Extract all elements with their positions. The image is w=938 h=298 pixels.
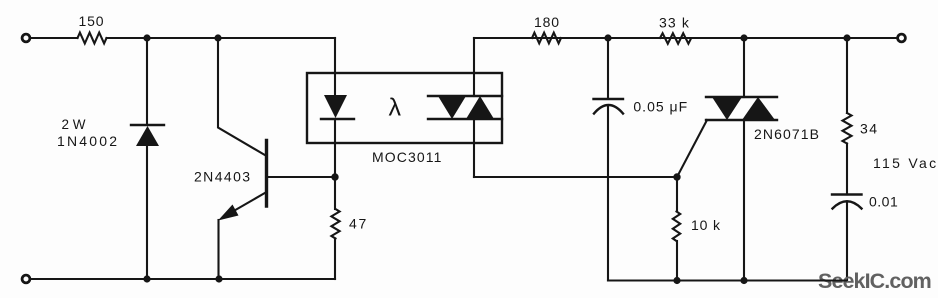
resistor 34 [843, 113, 852, 144]
node (bottom, 10k) [673, 277, 680, 284]
node (bottom, triac MT1) [740, 277, 747, 284]
wire (triac MT1 to bottom rail) [743, 120, 745, 281]
wire (snubber cap branch) [607, 38, 609, 98]
svg-text:180: 180 [534, 14, 560, 30]
svg-text:MOC3011: MOC3011 [372, 149, 442, 165]
svg-text:1N4002: 1N4002 [57, 133, 119, 149]
wire [31, 37, 78, 39]
svg-text:2 W: 2 W [62, 117, 86, 132]
svg-text:33 k: 33 k [659, 15, 690, 31]
terminal T3 (top right) [898, 34, 906, 42]
svg-text:34: 34 [860, 121, 879, 137]
node (34 ohm branch junction) [843, 34, 850, 41]
wire (diode to bottom rail) [146, 146, 148, 279]
wire (bottom left rail) [31, 278, 335, 280]
node (junction top, diode branch) [143, 34, 150, 41]
wire (LED cathode down to junction) [334, 119, 336, 177]
wire (triac MT2 to top rail) [743, 38, 745, 97]
node (bottom, emitter branch) [215, 275, 222, 282]
wire (34 ohm branch down) [846, 38, 848, 113]
op-to coupler U1 MOC3011 box [307, 73, 502, 143]
node (base / LED cathode / 47 ohm junction) [331, 173, 338, 180]
terminal T2 (bottom left) [22, 275, 30, 283]
terminal T1 (top left input) [22, 34, 30, 42]
wire (cap 0.01 to bottom rail) [846, 202, 848, 281]
resistor 33 k [660, 33, 691, 43]
wire (diode branch down) [146, 38, 148, 125]
svg-text:λ: λ [389, 94, 402, 122]
capacitor 0.05 uF [594, 99, 624, 114]
wire [107, 37, 336, 39]
wire (bottom right rail) [608, 279, 847, 281]
diode D1 1N4002 [131, 125, 164, 146]
wire (bottom right rail overdraw) [750, 279, 847, 281]
wire (photo-triac MT1 down) [473, 119, 475, 177]
node (bottom, diode branch) [143, 275, 150, 282]
wire (top right rail) [474, 37, 897, 39]
triac Q2 2N6071B [706, 97, 777, 120]
resistor 10 k [673, 177, 680, 281]
svg-text:115 Vac: 115 Vac [873, 155, 938, 171]
resistor 180 [532, 33, 561, 44]
wire (cap down to bottom rail) [607, 106, 609, 281]
wire (photo-triac MT2 up to top rail) [473, 38, 475, 96]
transistor Q1 2N4403 [218, 141, 267, 221]
wire (gate feed horizontal) [474, 176, 677, 178]
svg-text:0.01: 0.01 [869, 194, 898, 210]
svg-text:47: 47 [349, 216, 368, 232]
node (triac MT2 junction) [740, 34, 747, 41]
node (180/33k junction) [604, 34, 611, 41]
svg-text:10 k: 10 k [691, 217, 721, 233]
capacitor 0.01 [832, 195, 862, 209]
svg-text:150: 150 [79, 13, 105, 29]
wire (emitter down to bottom rail) [217, 220, 219, 279]
node (gate / 10k junction) [673, 173, 680, 180]
wire (base to node) [267, 176, 335, 178]
svg-text:0.05 μF: 0.05 μF [633, 99, 688, 115]
resistor 150 [78, 33, 107, 44]
wire (transistor collector branch down) [218, 38, 267, 156]
svg-text:2N4403: 2N4403 [194, 169, 251, 185]
node (junction top, transistor branch) [214, 34, 221, 41]
LED (inside MOC3011) [321, 95, 354, 119]
wire (LED anode from top rail) [334, 38, 336, 96]
svg-text:2N6071B: 2N6071B [754, 126, 820, 142]
photo-triac (inside MOC3011) [428, 96, 502, 119]
wire (34 to cap 0.01) [846, 144, 848, 195]
resistor 47 [331, 177, 339, 279]
wire (triac gate diagonal) [677, 120, 707, 177]
